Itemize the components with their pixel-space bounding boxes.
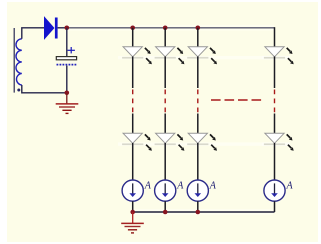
wire col4 below LED1 [274,57,276,89]
wire col2 below LED1 [164,57,166,89]
wire col3 to LED2 [197,114,199,134]
dashed continuation col2 [164,90,166,113]
wire capacitor to bottom node [66,66,68,93]
svg-text:A: A [209,181,217,192]
wire col1 below LED1 [132,57,134,89]
wire col1 source to bottom rail [132,201,134,212]
node dot bottom col2 [163,210,168,215]
ground stem bottom [132,212,134,223]
LED row1 col4 [264,47,294,65]
LED row2 col4 [264,133,294,151]
ground stem left [66,93,68,104]
top rail wire [67,27,275,29]
ground left [56,104,79,114]
capacitor C1 [56,57,77,65]
transformer core line [13,28,15,93]
dashed continuation horizontal [211,99,261,101]
LED row2 col3 [187,133,217,151]
LED row2 col1 [122,133,152,151]
svg-text:A: A [176,181,184,192]
ground bottom [121,223,144,233]
wire node to capacitor [66,28,68,57]
node dot diode output [65,26,70,31]
wire col4 LED2 to source [274,143,276,180]
current source I4 [264,180,285,201]
current source I3 [187,180,208,201]
dashed continuation col3 [197,90,199,113]
wire col4 drop from rail [274,27,276,47]
polarity dot [17,89,20,92]
node dot bottom col1 [130,210,135,215]
node dot column1 top [130,26,135,31]
wire col1 rail to LED [132,28,134,47]
wire col3 LED2 to source [197,143,199,180]
node dot bottom col3 [196,210,201,215]
wire col3 rail to LED [197,28,199,47]
wire col2 rail to LED [164,28,166,47]
diode D1 [45,18,58,39]
svg-text:A: A [286,181,294,192]
node dot capacitor bottom [65,91,70,96]
node dot column2 top [163,26,168,31]
LED row2 col2 [155,133,185,151]
dashed continuation col1 [132,90,134,113]
LED row1 col1 [122,47,152,65]
wire col3 below LED1 [197,57,199,89]
wire col2 to LED2 [164,114,166,134]
wire col1 LED2 to source [132,143,134,180]
bottom rail wire [133,211,275,213]
wire col3 source to bottom rail [197,201,199,212]
wire diode to node [58,27,67,29]
wire col2 LED2 to source [164,143,166,180]
wire col4 to LED2 [274,114,276,134]
wire col2 source to bottom rail [164,201,166,212]
wire coil bottom to node [22,85,67,93]
current source I1 [122,180,143,201]
wire coil top to diode [22,28,45,39]
node dot column3 top [196,26,201,31]
dashed continuation col4 [274,90,276,113]
wire col4 source to bottom rail [274,201,276,212]
svg-text:A: A [144,181,152,192]
capacitor C1 plus label [68,47,75,53]
wire col1 to LED2 [132,114,134,134]
inductor winding [16,39,22,85]
current source I2 [155,180,176,201]
LED row1 col2 [155,47,185,65]
LED row1 col3 [187,47,217,65]
